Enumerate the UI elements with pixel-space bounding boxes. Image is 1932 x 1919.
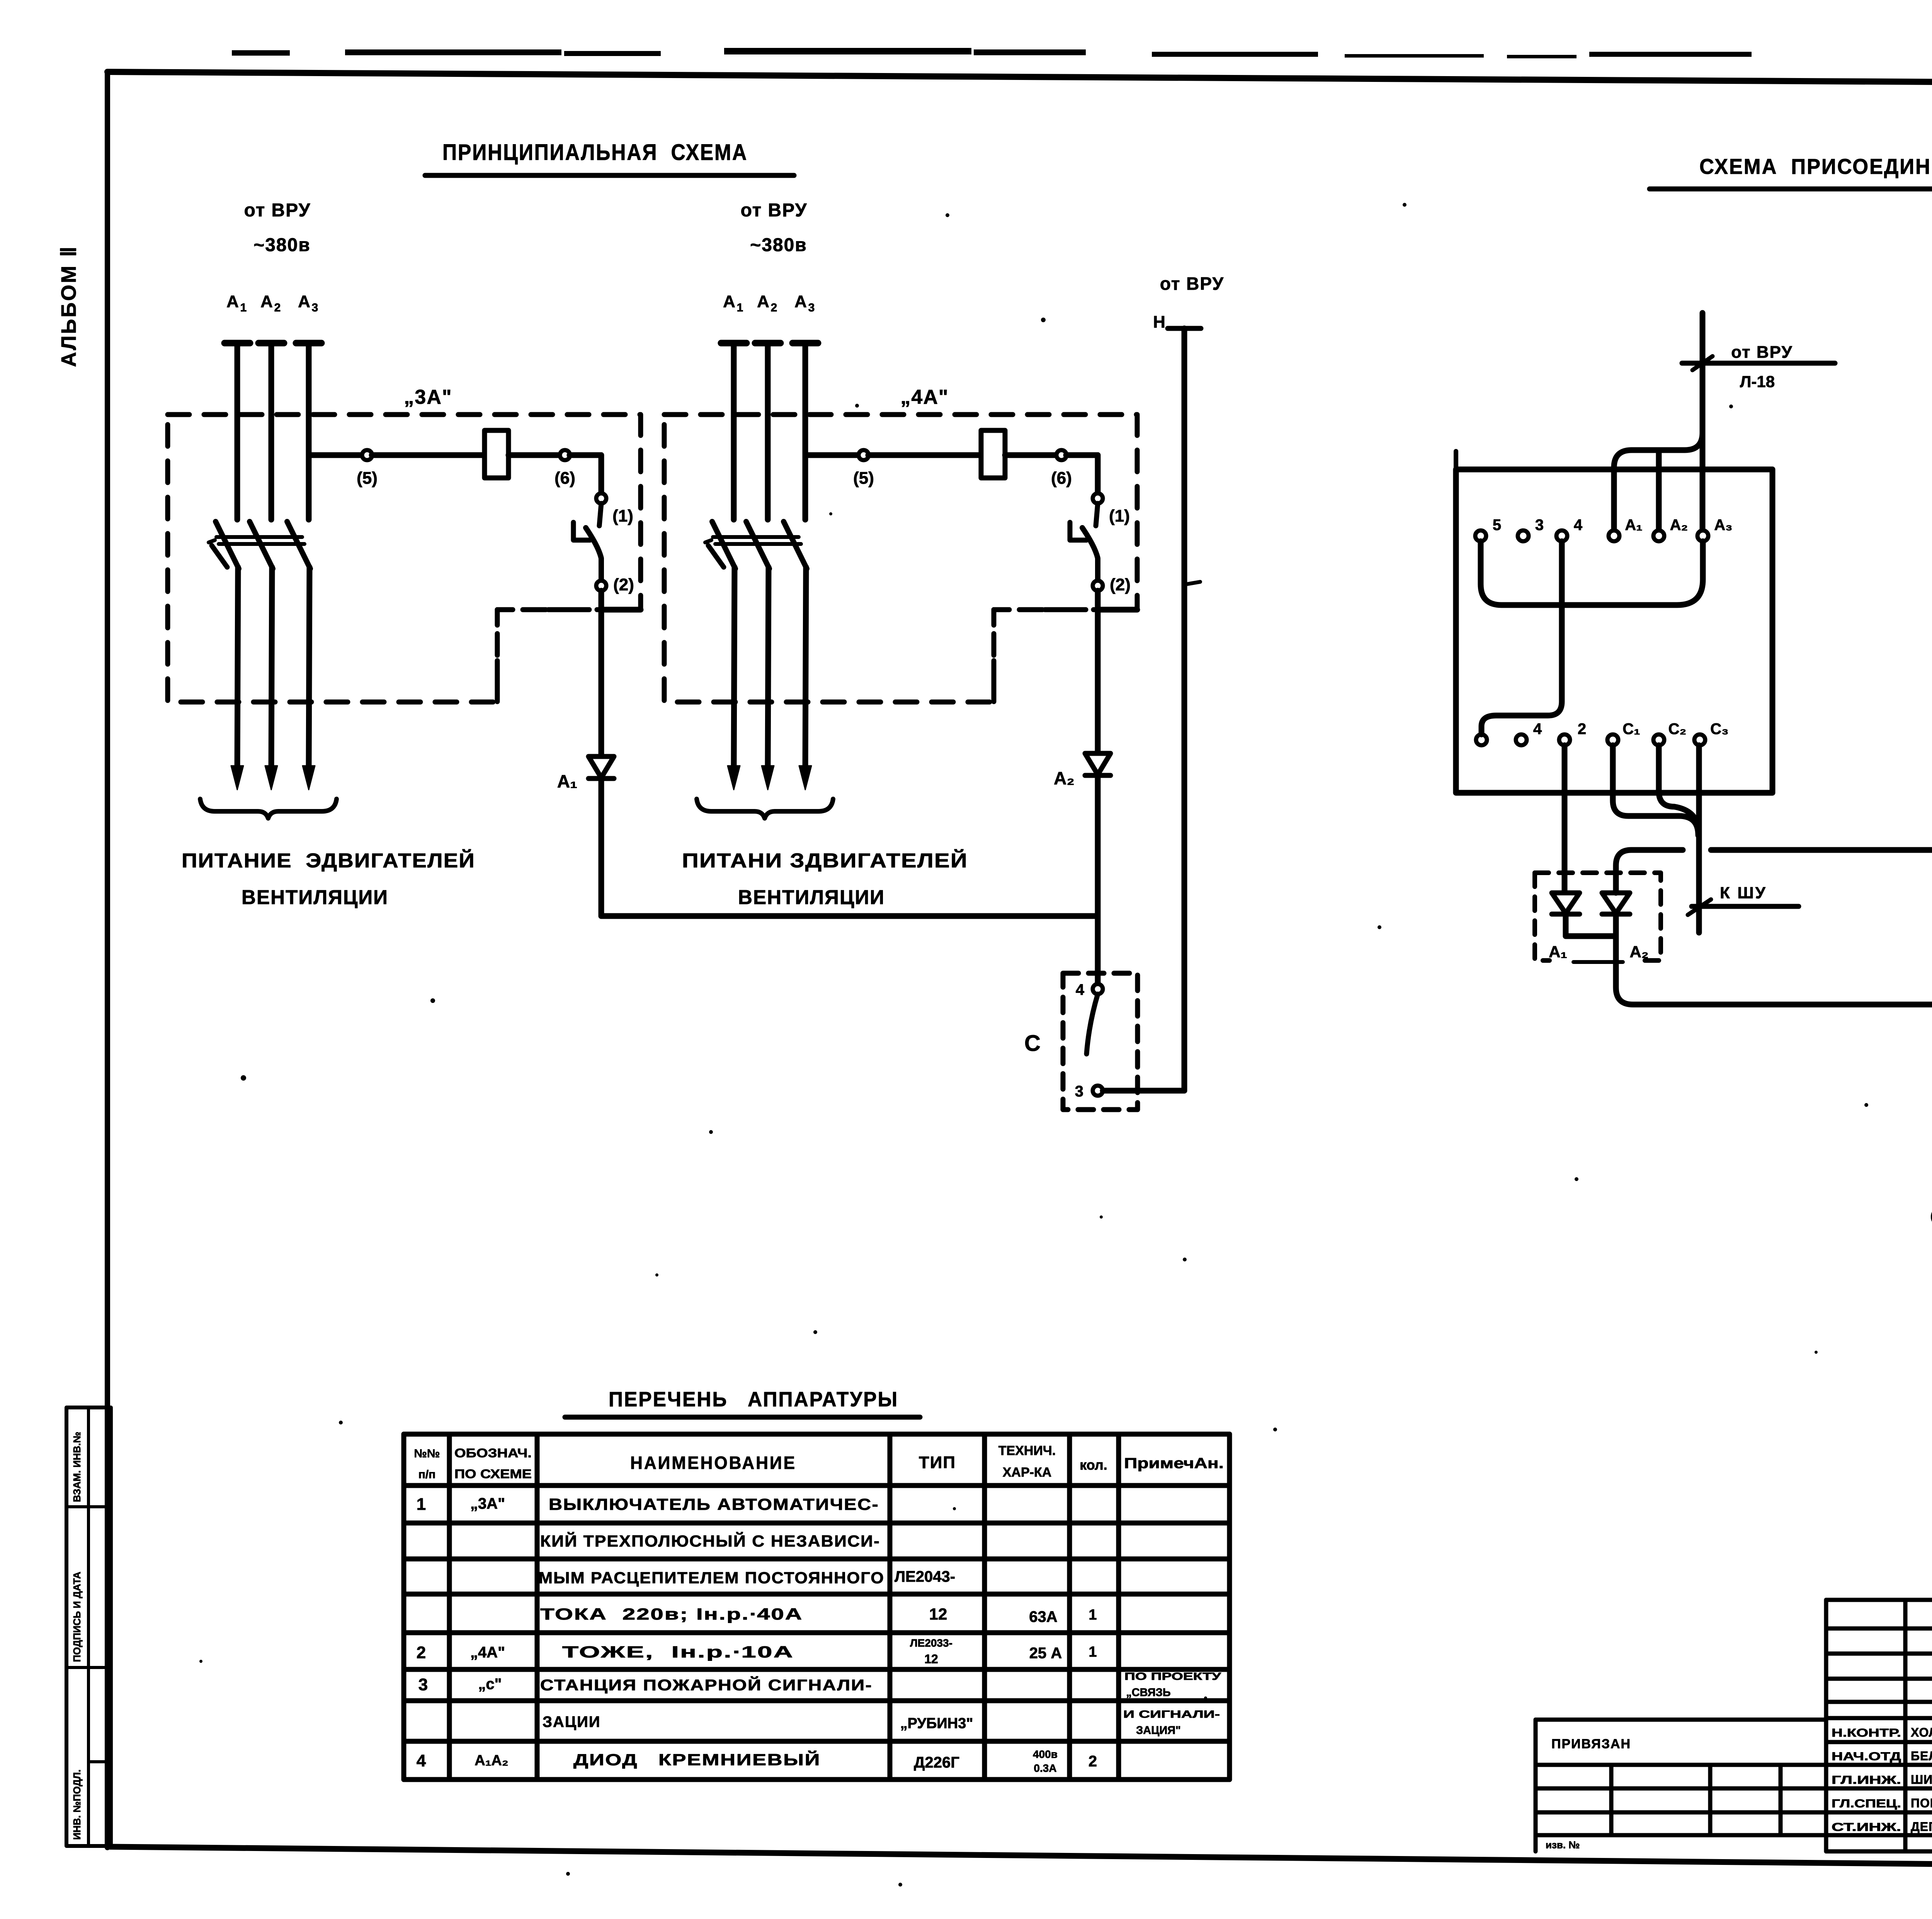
svg-text:(1): (1) xyxy=(1109,507,1130,525)
svg-text:от ВРУ: от ВРУ xyxy=(244,200,311,221)
svg-text:3: 3 xyxy=(1075,1083,1083,1100)
svg-text:„3А": „3А" xyxy=(470,1495,505,1512)
svg-text:НАИМЕНОВАНИЕ: НАИМЕНОВАНИЕ xyxy=(630,1453,796,1473)
svg-text:БЕЛОВ: БЕЛОВ xyxy=(1911,1749,1932,1763)
svg-text:К ШУ: К ШУ xyxy=(1720,884,1767,902)
svg-text:400в: 400в xyxy=(1033,1748,1058,1760)
svg-text:„РУБИН3": „РУБИН3" xyxy=(900,1715,973,1732)
svg-text:А₂: А₂ xyxy=(1670,517,1688,534)
svg-text:СТ.ИНЖ.: СТ.ИНЖ. xyxy=(1832,1821,1901,1834)
svg-text:3: 3 xyxy=(808,301,815,314)
svg-text:4: 4 xyxy=(417,1751,426,1770)
svg-text:5: 5 xyxy=(1493,517,1501,534)
svg-text:ТОЖЕ, Ін.р.∙10А: ТОЖЕ, Ін.р.∙10А xyxy=(562,1643,794,1661)
svg-text:63А: 63А xyxy=(1029,1608,1057,1625)
svg-text:ПОПОВА: ПОПОВА xyxy=(1911,1796,1932,1810)
svg-text:ХАР-КА: ХАР-КА xyxy=(1003,1465,1052,1480)
svg-text:СТАНЦИЯ ПОЖАРНОЙ СИГНАЛИ-: СТАНЦИЯ ПОЖАРНОЙ СИГНАЛИ- xyxy=(540,1676,872,1694)
svg-text:ТИП: ТИП xyxy=(919,1453,956,1472)
svg-text:Д226Г: Д226Г xyxy=(914,1754,959,1771)
svg-text:2: 2 xyxy=(417,1643,426,1662)
svg-text:2: 2 xyxy=(1578,721,1586,738)
svg-text:от ВРУ: от ВРУ xyxy=(1160,274,1224,294)
svg-text:1: 1 xyxy=(737,301,743,314)
svg-text:ПО СХЕМЕ: ПО СХЕМЕ xyxy=(454,1467,532,1481)
svg-text:ПримечАн.: ПримечАн. xyxy=(1124,1455,1224,1472)
svg-text:12: 12 xyxy=(924,1652,938,1666)
svg-text:ВЕНТИЛЯЦИИ: ВЕНТИЛЯЦИИ xyxy=(738,886,885,909)
svg-text:ПЕРЕЧЕНЬ АППАРАТУРЫ: ПЕРЕЧЕНЬ АППАРАТУРЫ xyxy=(609,1388,898,1411)
svg-text:25 А: 25 А xyxy=(1029,1645,1062,1662)
svg-text:от ВРУ: от ВРУ xyxy=(741,200,808,221)
svg-text:„4А": „4А" xyxy=(900,386,949,408)
svg-text:(6): (6) xyxy=(554,469,575,488)
svg-text:А: А xyxy=(298,292,310,311)
svg-text:А₂: А₂ xyxy=(1054,768,1075,788)
svg-text:„3А": „3А" xyxy=(404,386,452,408)
svg-text:ПИТАНИ ЗДВИГАТЕЛЕЙ: ПИТАНИ ЗДВИГАТЕЛЕЙ xyxy=(682,849,968,872)
svg-text:(2): (2) xyxy=(613,575,634,594)
svg-text:(5): (5) xyxy=(357,469,378,488)
svg-text:(5): (5) xyxy=(853,469,874,488)
svg-text:А₁А₂: А₁А₂ xyxy=(474,1752,509,1769)
svg-text:С₂: С₂ xyxy=(1668,721,1687,738)
svg-text:А₂: А₂ xyxy=(1630,943,1649,961)
svg-text:ПРИВЯЗАН: ПРИВЯЗАН xyxy=(1551,1737,1631,1751)
svg-text:~380в: ~380в xyxy=(253,235,311,255)
svg-text:0.3А: 0.3А xyxy=(1034,1762,1056,1774)
svg-text:1: 1 xyxy=(1088,1607,1097,1623)
svg-text:А: А xyxy=(723,292,735,311)
svg-text:„СВЯЗЬ: „СВЯЗЬ xyxy=(1126,1686,1171,1699)
svg-text:ШИЛОВ: ШИЛОВ xyxy=(1911,1773,1932,1786)
svg-text:(6): (6) xyxy=(1051,469,1072,488)
svg-text:2: 2 xyxy=(1088,1753,1097,1770)
svg-text:С₁: С₁ xyxy=(1622,721,1640,738)
svg-text:2: 2 xyxy=(771,301,777,314)
svg-text:ГЛ.ИНЖ.: ГЛ.ИНЖ. xyxy=(1832,1774,1901,1786)
svg-text:от ВРУ: от ВРУ xyxy=(1731,343,1793,362)
svg-text:КИЙ ТРЕХПОЛЮСНЫЙ С НЕЗАВИСИ-: КИЙ ТРЕХПОЛЮСНЫЙ С НЕЗАВИСИ- xyxy=(540,1531,880,1550)
svg-text:МЫМ РАСЦЕПИТЕЛЕМ ПОСТОЯННОГО: МЫМ РАСЦЕПИТЕЛЕМ ПОСТОЯННОГО xyxy=(539,1569,884,1587)
svg-text:ВЫКЛЮЧАТЕЛЬ АВТОМАТИЧЕС-: ВЫКЛЮЧАТЕЛЬ АВТОМАТИЧЕС- xyxy=(549,1495,879,1513)
svg-text:(1): (1) xyxy=(612,507,633,525)
svg-text:ЛЕ2033-: ЛЕ2033- xyxy=(910,1637,952,1649)
svg-text:4: 4 xyxy=(1076,981,1085,998)
svg-text:„4А": „4А" xyxy=(470,1644,505,1661)
svg-text:А₃: А₃ xyxy=(1714,517,1732,534)
svg-text:ЗАЦИИ: ЗАЦИИ xyxy=(543,1713,601,1730)
svg-text:И СИГНАЛИ-: И СИГНАЛИ- xyxy=(1123,1708,1220,1720)
svg-text:ПИТАНИЕ ЭДВИГАТЕЛЕЙ: ПИТАНИЕ ЭДВИГАТЕЛЕЙ xyxy=(182,849,475,872)
svg-text:3: 3 xyxy=(1535,517,1544,534)
svg-text:№№: №№ xyxy=(414,1447,440,1460)
svg-text:С₃: С₃ xyxy=(1710,721,1728,738)
svg-text:ВЕНТИЛЯЦИИ: ВЕНТИЛЯЦИИ xyxy=(241,886,388,909)
svg-text:ДИОД КРЕМНИЕВЫЙ: ДИОД КРЕМНИЕВЫЙ xyxy=(573,1750,821,1769)
svg-text:1: 1 xyxy=(417,1495,426,1514)
svg-text:3: 3 xyxy=(418,1675,428,1694)
svg-text:Н: Н xyxy=(1153,313,1165,331)
svg-text:А₁: А₁ xyxy=(557,771,577,791)
svg-text:4: 4 xyxy=(1574,517,1583,534)
svg-text:Н.КОНТР.: Н.КОНТР. xyxy=(1832,1727,1901,1739)
svg-text:ПОДПИСЬ И ДАТА: ПОДПИСЬ И ДАТА xyxy=(71,1572,83,1662)
svg-text:А: А xyxy=(226,292,239,311)
svg-text:п/п: п/п xyxy=(418,1468,436,1481)
svg-text:(2): (2) xyxy=(1110,575,1131,594)
svg-text:С: С xyxy=(1930,1205,1932,1230)
svg-text:АЛЬБОМ Ⅱ: АЛЬБОМ Ⅱ xyxy=(57,245,80,367)
svg-text:1: 1 xyxy=(1088,1644,1097,1660)
svg-text:А: А xyxy=(794,292,807,311)
svg-text:А: А xyxy=(757,292,769,311)
svg-text:Л-18: Л-18 xyxy=(1740,372,1775,391)
svg-text:ТОКА 220в; Ін.р.∙40А: ТОКА 220в; Ін.р.∙40А xyxy=(540,1605,803,1623)
svg-text:СХЕМА ПРИСОЕДИНЕНИЙ: СХЕМА ПРИСОЕДИНЕНИЙ xyxy=(1699,154,1932,178)
svg-text:ЗАЦИЯ": ЗАЦИЯ" xyxy=(1136,1724,1181,1737)
svg-text:ПРИНЦИПИАЛЬНАЯ СХЕМА: ПРИНЦИПИАЛЬНАЯ СХЕМА xyxy=(442,140,748,165)
svg-text:ИНВ. №ПОДЛ.: ИНВ. №ПОДЛ. xyxy=(71,1769,83,1840)
svg-text:А: А xyxy=(260,292,273,311)
svg-text:1: 1 xyxy=(240,301,247,314)
svg-text:ЛЕ2043-: ЛЕ2043- xyxy=(895,1568,955,1585)
svg-text:ХОЛОПОВА: ХОЛОПОВА xyxy=(1911,1725,1932,1739)
svg-text:С: С xyxy=(1024,1031,1041,1056)
svg-text:А₁: А₁ xyxy=(1625,517,1642,534)
svg-text:ТЕХНИЧ.: ТЕХНИЧ. xyxy=(998,1443,1056,1458)
svg-text:ВЗАМ. ИНВ.№: ВЗАМ. ИНВ.№ xyxy=(71,1432,83,1502)
svg-text:4: 4 xyxy=(1533,721,1542,738)
svg-text:ПО ПРОЕКТУ: ПО ПРОЕКТУ xyxy=(1124,1671,1222,1682)
svg-text:ГЛ.СПЕЦ.: ГЛ.СПЕЦ. xyxy=(1832,1797,1901,1810)
svg-text:~380в: ~380в xyxy=(750,235,807,255)
svg-text:изв. №: изв. № xyxy=(1546,1839,1580,1851)
svg-text:„с": „с" xyxy=(478,1676,502,1693)
svg-text:2: 2 xyxy=(274,301,281,314)
svg-text:А₁: А₁ xyxy=(1549,943,1567,961)
svg-text:12: 12 xyxy=(929,1605,947,1623)
svg-text:3: 3 xyxy=(312,301,318,314)
svg-text:ДЕГТЯРЬ: ДЕГТЯРЬ xyxy=(1911,1820,1932,1834)
svg-text:ОБОЗНАЧ.: ОБОЗНАЧ. xyxy=(454,1446,532,1460)
svg-text:кол.: кол. xyxy=(1080,1457,1107,1473)
svg-text:НАЧ.ОТД: НАЧ.ОТД xyxy=(1832,1750,1901,1763)
